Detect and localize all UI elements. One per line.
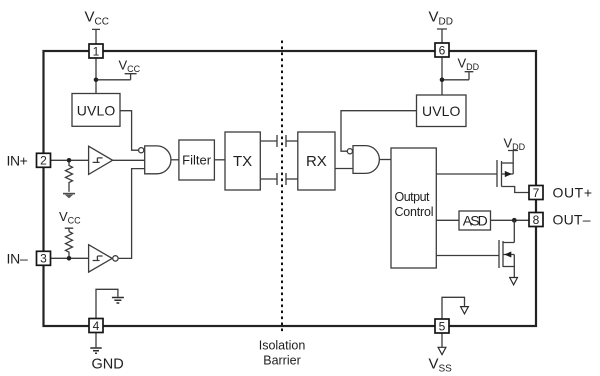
wire VCC supply to pin 1	[92, 29, 100, 44]
svg-text:OUT+: OUT+	[553, 184, 593, 200]
inverter output bubble	[113, 256, 118, 261]
hysteresis mark (inverter)	[93, 256, 103, 261]
svg-text:1: 1	[93, 44, 100, 58]
svg-text:ASD: ASD	[463, 212, 488, 228]
isolation barrier dashed line	[281, 41, 283, 334]
svg-text:4: 4	[93, 319, 100, 333]
wire Output Control to lower FET gate	[436, 255, 499, 257]
pin 4	[89, 319, 103, 333]
VSS arrow symbol (lower FET source)	[510, 278, 518, 285]
buffer A1 (IN+ schmitt buffer)	[89, 146, 113, 174]
wire Output Control to upper FET gate	[436, 173, 497, 175]
wire VDD supply to pin 6	[437, 29, 447, 43]
node OUT- junction	[512, 218, 517, 223]
wire pin 4 to GND symbol	[95, 333, 97, 348]
resistor R2 (IN- pullup)	[66, 232, 73, 257]
Filter block	[179, 140, 215, 180]
svg-text:Output: Output	[395, 190, 431, 204]
AND gate G2 (right)	[353, 146, 379, 174]
svg-text:GND: GND	[92, 357, 124, 373]
wire pin 5 internal tie	[442, 297, 465, 319]
wire pin 6 to UVLO and VDD tap node	[442, 57, 473, 95]
node VDD tap junction	[440, 78, 445, 83]
wire Output Control to ASD	[436, 219, 459, 221]
inverter A2 (IN- schmitt inverter)	[89, 245, 113, 272]
ground symbol GND (pin 4 external)	[90, 348, 101, 353]
pin 3	[37, 251, 51, 265]
hysteresis mark (buffer)	[93, 158, 103, 163]
svg-text:5: 5	[439, 319, 446, 333]
svg-text:UVLO: UVLO	[77, 102, 116, 118]
svg-text:RX: RX	[306, 153, 327, 170]
wire UVLO right output to AND gate G2 inverted input	[341, 111, 417, 152]
svg-text:3: 3	[40, 252, 47, 266]
svg-text:OUT–: OUT–	[553, 211, 591, 227]
wire G1 output to Filter	[171, 159, 179, 161]
svg-text:TX: TX	[233, 153, 252, 170]
resistor R1 (IN+ pulldown)	[66, 163, 73, 192]
AND gate G1 inverted input bubble	[139, 148, 144, 153]
wire TX to isolation cap top	[260, 140, 277, 142]
svg-text:Barrier: Barrier	[263, 354, 301, 368]
pin 8	[529, 213, 543, 227]
svg-text:Filter: Filter	[182, 153, 212, 168]
wire cap top to RX	[286, 140, 298, 142]
pin 7	[529, 186, 543, 200]
pin 3 wire into inverter	[51, 257, 90, 259]
body arrow (Q1)	[505, 171, 512, 177]
svg-text:6: 6	[439, 43, 446, 57]
ground symbol (IN+ pulldown)	[63, 194, 75, 199]
pin 6	[435, 43, 449, 57]
UVLO block U2 (right)	[417, 95, 467, 127]
svg-text:Control: Control	[395, 205, 434, 219]
wire pin 5 to VSS	[441, 333, 443, 347]
node IN+ junction	[67, 158, 72, 163]
VCC bar (IN- pullup)	[65, 228, 73, 231]
node VCC tap junction	[94, 78, 99, 83]
wire ASD to pin 8	[491, 219, 530, 221]
transistor Q1 (upper output PMOS)	[497, 160, 529, 193]
svg-text:IN+: IN+	[7, 152, 28, 168]
VDD bar (upper FET)	[508, 151, 518, 175]
wire Filter to TX	[214, 159, 225, 161]
svg-text:UVLO: UVLO	[422, 103, 461, 119]
capacitor C2 (bottom isolation)	[277, 173, 286, 185]
IC boundary outer rectangle	[44, 51, 537, 326]
ground symbol (near pin 4, internal)	[112, 298, 124, 304]
capacitor C1 (top isolation)	[277, 135, 286, 147]
VSS arrow symbol (near pin 5, internal)	[461, 307, 469, 314]
wire cap bottom to RX	[286, 178, 298, 180]
ASD block	[459, 211, 491, 230]
wire UVLO output to AND gate inverted input	[120, 111, 139, 151]
node IN- junction	[67, 256, 72, 261]
AND gate G1 (left)	[145, 146, 171, 174]
svg-text:IN–: IN–	[7, 250, 29, 266]
wire buffer output to AND gate	[112, 159, 144, 161]
pin 2 wire into buffer	[51, 159, 90, 161]
RX block	[298, 132, 335, 190]
Output Control block	[391, 148, 436, 268]
wire RX output to AND gate G2	[335, 168, 353, 170]
svg-text:8: 8	[533, 213, 540, 227]
pin 5	[435, 319, 449, 333]
VSS arrow symbol (pin 5 external)	[438, 347, 446, 354]
wire G2 output to Output Control	[379, 159, 391, 161]
TX block	[225, 132, 260, 190]
UVLO block U1 (left)	[72, 94, 120, 127]
wire inverter output to AND gate lower input	[118, 169, 145, 259]
pin 2	[37, 153, 51, 167]
body arrow (Q2)	[504, 252, 511, 258]
wire pin 4 internal ground tie	[96, 289, 118, 318]
wire TX to isolation cap bottom	[260, 178, 277, 180]
transistor Q2 (lower output NMOS)	[499, 220, 514, 277]
AND gate G2 inverted input bubble	[347, 149, 352, 154]
wire pin 1 to UVLO and VCC tap node	[96, 58, 137, 94]
svg-text:2: 2	[40, 154, 47, 168]
pin 1	[89, 44, 103, 58]
svg-text:Isolation: Isolation	[259, 339, 306, 353]
svg-text:7: 7	[533, 186, 540, 200]
